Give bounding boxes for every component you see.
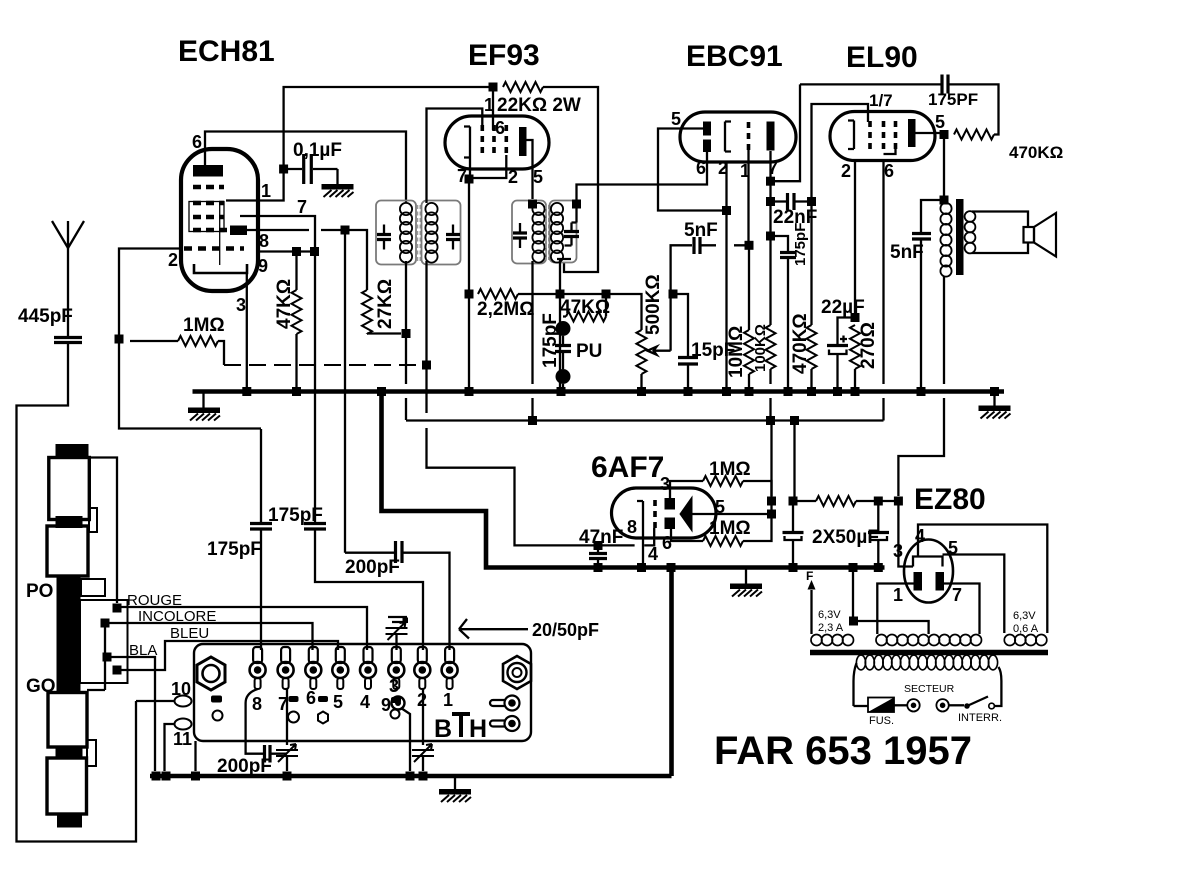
BTH misc tab 7 [289,696,299,702]
BTH side terminal 10 [175,696,192,707]
wire terminal 9 to bus3 [401,708,410,771]
wire terminal 7 down [286,689,287,745]
switch frame upper box [81,579,105,596]
EBC91 anode bar [767,122,775,151]
svg-text:6: 6 [306,688,316,708]
ECH81 grid row 3 [193,215,224,220]
pot wiper arrow [648,347,671,355]
svg-text:1MΩ: 1MΩ [709,459,751,480]
svg-text:5nF: 5nF [890,242,924,263]
junction bus 270 [851,387,860,396]
junction anode J1 [766,177,775,186]
6AF7 cathode [637,501,643,527]
junction bus 15pF [684,387,693,396]
coil joiner bar [56,516,83,528]
wire OT primary bottom to B+ feed [898,276,944,496]
AVC feed to 6AF7 [427,365,655,545]
svg-text:5: 5 [333,692,343,712]
BTH terminal 8 [250,647,266,689]
junction cathode / 2,2M [465,290,474,299]
junction bus2 riser [667,563,676,572]
ground bus3 [454,776,456,789]
pickup PU bottom dot [556,369,571,384]
coil block top cap [56,444,89,458]
junction 100K to B+ [766,416,775,425]
svg-text:20/50pF: 20/50pF [532,620,599,640]
svg-text:1MΩ: 1MΩ [183,315,225,336]
wire det node to pot top [560,294,642,330]
ground main bus right [993,392,995,406]
capacitor 175pF osc2 [314,522,316,524]
svg-text:10: 10 [171,679,191,699]
svg-text:5: 5 [935,112,945,132]
wire pin5 to junction [692,513,772,515]
junction bus 470K [807,387,816,396]
arrow 20/50pF [459,619,528,639]
wire pin1 to g2 rail [226,87,493,201]
resistor 27KOhm vertical [362,290,372,334]
junction bus3 t9 [406,772,415,781]
BTH terminal 7 [278,647,294,689]
capacitor 175PF feedback [942,75,948,94]
svg-text:6,3V: 6,3V [1013,610,1036,622]
wire junction to 200pF line [344,230,346,553]
junction bus3 trimmer [283,772,292,781]
junction bus right end [990,387,999,396]
svg-text:22KΩ 2W: 22KΩ 2W [497,95,581,116]
EF93 anode bar [519,127,527,156]
BTH key terminal 2 [505,716,520,731]
wire B+ drop to filter [793,421,816,502]
svg-text:EZ80: EZ80 [914,483,986,516]
primary left lead [854,663,857,706]
fuse FUS box [868,698,894,713]
svg-text:FAR 653 1957: FAR 653 1957 [714,729,972,773]
ECH81 inner grid frame [189,202,224,232]
svg-text:6: 6 [192,132,202,152]
tube EBC91 envelope [680,112,796,162]
svg-text:SECTEUR: SECTEUR [904,683,955,695]
junction det 47K [602,290,611,299]
resistor 22KOhm 2W [489,83,498,92]
IF1 primary tank box [376,201,416,265]
ECH81 cathode [194,264,247,273]
6AF7 target screen [680,497,692,531]
antenna coil B [47,526,88,576]
svg-text:2: 2 [841,161,851,181]
junction anode J2 22nF [766,197,775,206]
BTH key terminal 1 [505,696,520,711]
wire pin8 to 27K junction [247,230,367,290]
wire EBC91 grid down / resistor 10MOhm [747,150,750,330]
BTH misc circle 2 [288,712,299,723]
wire IF1 secondary bottom to AVC [425,261,427,365]
capacitor 0,1uF [286,168,338,170]
junction EF93 anode IF2 top [528,200,537,209]
junction bus 175pF [784,387,793,396]
svg-text:PU: PU [576,341,602,362]
switch INTERR [964,703,970,709]
svg-text:3: 3 [660,474,670,494]
main bus [193,389,1005,394]
svg-text:3: 3 [236,295,246,315]
BTH terminal 5 [332,647,348,689]
svg-text:11: 11 [173,729,192,749]
coil C side tab [87,740,96,766]
wire center tap [854,621,929,634]
wire contact INCOLORE down to coil C [87,623,105,690]
wire EZ80 cathode pin3 [898,501,913,567]
EZ80 heater bar [913,557,943,567]
svg-text:FUS.: FUS. [869,715,894,727]
junction bus 22uF [833,387,842,396]
svg-text:175pF: 175pF [540,313,561,368]
svg-text:B: B [434,715,452,743]
svg-text:500KΩ: 500KΩ [643,274,664,335]
svg-text:6,3V: 6,3V [818,609,841,621]
svg-text:EF93: EF93 [468,39,540,72]
svg-text:6AF7: 6AF7 [591,451,664,484]
svg-text:1: 1 [443,690,453,710]
tube EL90 envelope [830,112,935,161]
BTH misc tab 6 [318,696,328,702]
junction bus 5nF out [917,387,926,396]
BTH misc hex [318,712,328,724]
junction 15pF tap [669,290,678,299]
junction bus3 block [191,772,200,781]
ground 0,1uF [322,184,354,197]
BTH misc circle 1 [213,711,223,721]
6AF7 grid [653,500,657,528]
junction bus2 cap2 [874,563,883,572]
junction heater center tap [849,617,858,626]
OT core bar [956,199,964,275]
22uF plus sign [840,336,847,343]
wire pin8 cathode to bus2 [642,527,644,567]
junction cathode 22uF [851,313,860,322]
svg-text:2: 2 [508,167,518,187]
trimmer on terminal 3 [388,617,407,622]
switch frame [80,600,128,683]
EBC91 diode plate 1 [703,122,711,136]
junction bus 10M [745,387,754,396]
heater winding 0,6A [1004,635,1047,646]
wire pin3 to bus [246,273,248,387]
svg-text:BLEU: BLEU [170,625,209,642]
BTH misc rect [211,696,222,703]
resistor 270Ohm cathode [850,325,860,369]
capacitor 15pF [678,358,698,365]
wire pin6 up and to IF1 [205,132,406,204]
wire cathode junction down to bus [468,179,470,387]
IF2 secondary cap [564,232,579,237]
secteur terminal 2 [936,699,948,711]
svg-text:470KΩ: 470KΩ [790,313,811,374]
svg-text:8: 8 [627,517,637,537]
svg-text:8: 8 [259,231,269,251]
wire BLEU to BTH terminal 5 [117,641,338,670]
svg-text:470KΩ: 470KΩ [1009,143,1063,162]
IF1 primary coil [400,203,412,263]
IF1 core [418,205,421,261]
EZ80 plate 2 [936,572,945,591]
junction bus 47K [292,387,301,396]
capacitor 445pF [54,338,82,343]
junction pin9/pin7 line [310,247,319,256]
junction bus trunk [377,387,386,396]
svg-text:INTERR.: INTERR. [958,712,1002,724]
svg-text:9: 9 [258,256,268,276]
wire EBC91 anode chain down [769,151,771,325]
wire J1 to feedback riser [771,84,801,181]
tube EF93 envelope [445,116,549,169]
svg-text:INCOLORE: INCOLORE [138,608,216,625]
svg-text:F: F [806,569,813,583]
ECH81 grid row 1 [193,185,224,190]
speaker cone [1034,213,1056,257]
wire EBC91 cathode down to bus [725,162,727,387]
capacitor 175pF osc [260,429,262,522]
svg-text:4: 4 [360,692,370,712]
EL90 cathode [848,121,854,150]
wire EL90 anode to junction [916,133,945,196]
wire terminal 10 to shield box [136,700,175,702]
wire 15pF top [673,294,688,356]
wire speaker top [972,212,1028,228]
EL90 grid 2 [882,121,886,149]
trimmer ant [412,744,434,762]
coil block bottom cap [57,814,82,828]
wire EL90 screen g2 to B+ [882,161,884,421]
svg-text:2: 2 [168,250,178,270]
transformer core bar [810,650,1048,656]
junction bus2 6AF7 cathode [637,563,646,572]
svg-text:445pF: 445pF [18,306,73,327]
primary right lead [994,667,1001,706]
junction bus2 cap1 [789,563,798,572]
wire IF2 primary bottom to B+ [531,261,533,416]
wire 445pF to shield box [17,343,137,842]
wire EZ80 heater pin4 [918,525,1047,634]
wire terminal 11 down to bottom bus [165,724,176,771]
resistor 1MOhm top [670,481,703,498]
junction IF2 sec / det [556,290,565,299]
wire EZ80 plate7 to HT winding [944,584,980,635]
switch slider bar [57,576,81,691]
wire BLA to bottom bus [107,657,155,771]
junction bus2 47nF [594,563,603,572]
ECH81 triode anode bar [193,165,223,177]
speaker magnet box [1024,227,1035,243]
wire heater chassis drop [852,568,854,622]
wire EZ80 heater pin5 [943,555,1005,634]
IF2 primary cap [513,233,527,238]
capacitor 175pF PU [562,336,564,369]
svg-text:ROUGE: ROUGE [127,592,182,609]
wire EF93 anode to IF2 [527,140,533,199]
svg-text:1: 1 [484,95,494,115]
IF2 secondary coil [551,203,563,263]
svg-text:1: 1 [261,181,271,201]
pickup PU top dot [556,321,571,336]
wire secteur2 to switch [949,704,964,706]
junction bus pin3 [242,387,251,396]
wire pin7 down [240,216,315,523]
junction pin9/47K [292,247,301,256]
oscillator coil D [47,758,87,814]
ECH81 grid row 4 [193,228,228,233]
wire EL90 cathode down [854,161,856,318]
resistor 1MOhm AVC [130,340,178,342]
IF2 primary tank box [512,201,546,264]
IF1 primary cap [377,235,391,240]
resistor filter [816,496,856,506]
antenna coil A [49,458,90,520]
wire diode1 to cathode junction [658,129,722,211]
BTH left nut [197,657,225,690]
switch contact ROUGE [113,604,122,613]
junction filter left [789,497,798,506]
6AF7 anode 2 [665,518,676,530]
junction bus pot [637,387,646,396]
svg-text:5: 5 [533,167,543,187]
svg-text:ECH81: ECH81 [178,35,275,68]
junction pin2 line [115,335,124,344]
wire speaker bottom [972,243,1028,254]
BTH terminal 4 [360,647,376,689]
wire ECH81 pin2 to coil [119,249,261,429]
svg-text:6: 6 [884,161,894,181]
IF2 secondary bottom tie [557,259,571,261]
svg-text:22µF: 22µF [821,297,865,318]
oscillator coil C [48,693,87,748]
svg-text:0,6 A: 0,6 A [1013,623,1039,635]
EF93 grid 3 [504,125,508,157]
svg-text:EL90: EL90 [846,41,918,74]
tube 6AF7 envelope [612,488,717,538]
wire INCOLORE to BTH terminal 6 [105,623,313,650]
svg-text:3: 3 [389,676,399,696]
svg-text:PO: PO [26,581,53,602]
BTH misc tab 9 [391,697,401,703]
wire 0,1uF to ground [336,169,338,184]
coil A side tab [89,508,97,532]
resistor 47KOhm vertical [295,252,297,291]
B+ line [406,419,884,421]
svg-text:47KΩ: 47KΩ [560,297,610,318]
junction IF2 primary B+ [528,416,537,425]
BTH side terminal 11 [175,719,192,730]
ECH81 inner support [219,202,221,265]
wire coil A tap to ROUGE contact [89,458,117,604]
AVC dashed line [224,364,426,366]
svg-text:27KΩ: 27KΩ [375,279,396,329]
svg-text:1/7: 1/7 [869,91,893,110]
wire riser to EL90 grid 1/7 [812,104,869,202]
svg-text:270Ω: 270Ω [858,322,879,369]
switch contact BLEU [113,666,122,675]
EL90 grid 1 [868,121,872,149]
wire fuse to secteur1 [894,704,907,706]
capacitor 22nF [771,200,787,202]
capacitor 175pF anode [771,236,789,251]
capacitor 47nF [597,546,599,553]
junction bus2 heater [849,563,858,572]
BTH misc circle 3 [391,710,400,719]
junction bus EF93 cathode [465,387,474,396]
tube ECH81 envelope [181,149,258,291]
BTH block outline [194,644,531,741]
IF1 secondary tank box [422,201,461,265]
resistor 47KOhm det [563,294,606,317]
EF93 grid 2 [492,125,496,157]
capacitor 200pF padder [345,552,394,554]
bottom bus3 [150,774,672,779]
resistor 100KOhm anode load [766,325,776,369]
coil joiner bar 2 [56,748,83,759]
wire PU to bus [562,384,564,389]
ECH81 hexode anode box [230,226,247,236]
capacitor 2x50uF no2 [877,501,879,531]
svg-text:175pF: 175pF [792,223,809,266]
capacitor 200pF bottom [265,745,271,763]
wire IF1 primary bottom to B+ [405,261,407,420]
svg-text:5: 5 [671,109,681,129]
svg-text:BLA: BLA [129,642,157,659]
ECH81 grid row 2 [193,201,224,206]
svg-text:100KΩ: 100KΩ [752,324,769,372]
junction bus EBC cathode [722,387,731,396]
junction 47nF [594,541,603,550]
BTH right nut [503,656,531,689]
wire EZ80 plate1 to HT winding [877,584,913,635]
svg-text:EBC91: EBC91 [686,40,783,73]
svg-text:7: 7 [952,585,962,605]
junction bus3 BLA [152,772,161,781]
junction filter EZ80 [894,497,903,506]
junction OT primary top [940,196,949,205]
svg-text:H: H [469,715,487,743]
BTH terminal 1 [442,647,458,689]
resistor 1MOhm bottom [671,529,703,541]
OT secondary coil [965,211,976,253]
secteur terminal 1 [907,699,919,711]
svg-text:1MΩ: 1MΩ [709,518,751,539]
capacitor 2x50uF no1 [792,501,794,531]
EL90 g3 tie [884,149,896,154]
resistor 470KOhm feedback [954,130,994,140]
6AF7 anode 1 [665,498,676,510]
IF1 secondary coil [425,203,437,263]
wire terminal 8 to 200pF fixed [246,689,264,754]
resistor 470KOhm grid EL90 [810,202,812,326]
wire antenna down [67,248,69,336]
wire IF1 secondary top to EF93 grid [427,109,483,204]
capacitor 22uF electrolytic [838,318,856,345]
potentiometer 500KOhm [637,330,647,374]
svg-text:7: 7 [297,197,307,217]
primary winding [856,655,997,670]
svg-text:1: 1 [893,585,903,605]
junction 5nF to grid EBC91 [745,241,754,250]
wire IF2 secondary bottom down to bus [559,261,561,387]
EBC91 diode plate 2 [703,140,711,153]
junction 27K to IF1 primary return [402,329,411,338]
svg-text:200pF: 200pF [345,557,400,578]
junction filter cap2 [874,497,883,506]
BTH terminal 9 [392,697,405,710]
svg-text:47KΩ: 47KΩ [274,279,295,329]
